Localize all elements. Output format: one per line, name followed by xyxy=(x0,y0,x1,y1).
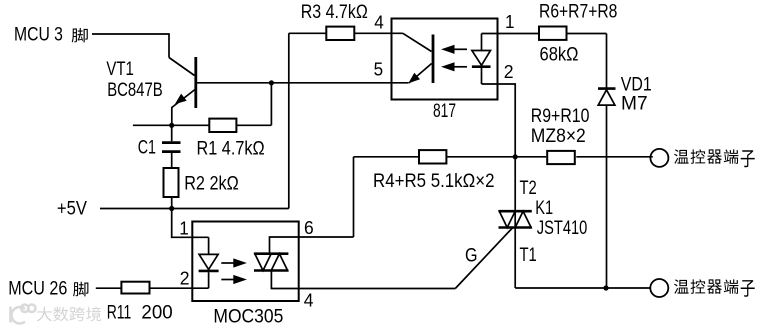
wire VT1 base to 817 pin5 xyxy=(197,82,409,84)
optocoupler 817 box xyxy=(392,19,498,100)
wire +5V up to R3 xyxy=(288,33,290,208)
svg-text:K1: K1 xyxy=(535,198,553,219)
watermark text CJK xyxy=(37,307,101,322)
svg-text:2: 2 xyxy=(180,268,190,288)
wire 817 pin1 to R6 xyxy=(482,33,539,35)
resistor R9+R10 xyxy=(547,151,575,164)
wire MOC triac bottom lead to pin4 xyxy=(271,271,455,289)
817 LED triangle xyxy=(472,51,491,66)
svg-text:R2 2kΩ: R2 2kΩ xyxy=(184,173,239,194)
triac K1 left triangle xyxy=(499,211,515,227)
terminal circle top xyxy=(650,149,668,167)
svg-text:VT1: VT1 xyxy=(106,59,133,80)
817 LED lead top xyxy=(481,34,483,51)
triac K1 top bar xyxy=(499,210,532,213)
svg-text:R3 4.7kΩ: R3 4.7kΩ xyxy=(301,2,368,23)
label terminal top CJK xyxy=(674,149,755,167)
svg-text:1: 1 xyxy=(505,12,515,32)
817 light arrow upper xyxy=(452,48,467,50)
svg-text:6: 6 xyxy=(304,218,314,238)
MOC triac top bar xyxy=(254,252,288,255)
MOC LED cathode bar xyxy=(199,270,219,273)
817 LED lead bottom xyxy=(481,68,483,84)
transistor VT1 emitter xyxy=(172,90,195,126)
wire R4R5 row left vertical to pin6 xyxy=(353,157,355,237)
MOC light arrow lower xyxy=(221,279,236,281)
node pin2 junction xyxy=(513,154,518,159)
svg-text:MCU 26: MCU 26 xyxy=(8,279,67,300)
diode VD1 triangle xyxy=(598,90,615,105)
svg-text:MCU 3: MCU 3 xyxy=(14,25,63,46)
wire R4R5 left xyxy=(354,156,420,158)
watermark logo xyxy=(11,305,36,324)
817 phototransistor collector diagonal xyxy=(403,33,432,51)
svg-text:R4+R5 5.1kΩ×2: R4+R5 5.1kΩ×2 xyxy=(373,171,495,192)
resistor R2 xyxy=(164,168,179,197)
svg-text:MZ8×2: MZ8×2 xyxy=(531,126,586,147)
node base junction xyxy=(269,80,274,85)
wire R11 input xyxy=(96,287,122,289)
svg-text:T1: T1 xyxy=(520,245,537,266)
resistor R3 xyxy=(326,27,354,40)
wire bottom row xyxy=(515,287,651,289)
817 phototransistor bar xyxy=(432,35,435,84)
wire base junction down to R1 xyxy=(270,83,272,126)
wire +5V down to MOC pin1 xyxy=(172,209,209,238)
svg-text:2: 2 xyxy=(504,62,514,82)
svg-text:T2: T2 xyxy=(520,178,537,199)
resistor R11 xyxy=(121,282,149,294)
label jiao of MCU 3 pin xyxy=(72,28,88,42)
capacitor C1 plates xyxy=(162,143,181,152)
svg-text:JST410: JST410 xyxy=(537,218,588,239)
node +5V junction xyxy=(169,206,174,211)
triac K1 right triangle xyxy=(515,211,531,227)
resistor R4+R5 xyxy=(419,150,446,163)
svg-text:MOC305: MOC305 xyxy=(213,307,283,328)
MOC light arrow upper xyxy=(221,262,236,264)
MOC triac bottom bar xyxy=(254,269,288,272)
transistor VT1 emitter arrowhead xyxy=(176,95,186,104)
MOC305 box xyxy=(192,222,298,302)
817 phototransistor emitter arrowhead xyxy=(410,74,420,83)
svg-text:G: G xyxy=(465,245,478,266)
svg-text:4: 4 xyxy=(304,290,314,310)
capacitor C1 lead bottom xyxy=(171,153,173,168)
wire R3 to 817 pin4 xyxy=(354,32,403,34)
wire R3 left xyxy=(289,32,327,34)
svg-text:BC847B: BC847B xyxy=(107,80,163,101)
wire MCU3 to VT1 collector xyxy=(92,34,169,58)
label jiao of MCU 26 pin xyxy=(73,282,88,297)
svg-text:C1: C1 xyxy=(138,138,156,159)
wire R6 to VD1 branch xyxy=(567,33,607,35)
wire 817 pin2 xyxy=(482,84,516,157)
label terminal bottom CJK xyxy=(674,279,755,296)
wire VD1 branch upper xyxy=(606,34,608,89)
wire R9R10 to terminal xyxy=(576,156,653,158)
svg-text:R1 4.7kΩ: R1 4.7kΩ xyxy=(197,138,265,159)
817 phototransistor emitter xyxy=(409,64,432,84)
triac K1 bottom bar xyxy=(499,226,532,229)
svg-text:68kΩ: 68kΩ xyxy=(540,45,579,66)
wire MOC triac top lead to pin6 xyxy=(270,237,354,254)
resistor R6+R7+R8 xyxy=(539,27,567,40)
capacitor C1 lead top xyxy=(171,125,173,141)
MOC LED lead bottom xyxy=(208,272,210,288)
resistor R1 xyxy=(209,119,236,132)
transistor VT1 bar xyxy=(194,57,197,108)
svg-text:817: 817 xyxy=(433,101,456,122)
wire R2 to +5V xyxy=(171,197,173,209)
wire VD1 branch lower xyxy=(606,105,608,288)
terminal circle bottom xyxy=(650,279,668,297)
wire K1 T2-T1 lead xyxy=(514,157,516,288)
node bottom junction xyxy=(603,285,608,290)
svg-text:200: 200 xyxy=(141,303,172,324)
diode VD1 cathode bar xyxy=(598,87,616,90)
wire +5V rail xyxy=(100,208,289,210)
svg-text:5: 5 xyxy=(374,60,384,80)
MOC triac left triangle xyxy=(255,254,271,271)
817 light arrow lower xyxy=(452,66,467,68)
svg-text:M7: M7 xyxy=(621,94,648,115)
node emitter junction xyxy=(169,123,174,128)
svg-text:1: 1 xyxy=(179,218,189,238)
svg-text:R9+R10: R9+R10 xyxy=(531,106,590,127)
wire R11 to MOC pin2 xyxy=(150,287,209,289)
transistor VT1 collector diagonal xyxy=(169,58,195,76)
wire R4R5 right xyxy=(446,156,546,158)
svg-text:4: 4 xyxy=(374,13,384,33)
svg-text:R11: R11 xyxy=(107,303,132,324)
MOC triac right triangle xyxy=(271,254,287,271)
wire R1 row left stub xyxy=(133,124,209,126)
svg-text:+5V: +5V xyxy=(57,198,87,219)
MOC LED triangle xyxy=(199,254,218,269)
wire G diagonal xyxy=(455,228,513,289)
wire R1 right xyxy=(236,124,271,126)
svg-text:R6+R7+R8: R6+R7+R8 xyxy=(539,2,617,23)
817 LED cathode bar xyxy=(472,65,491,68)
MOC LED lead top xyxy=(208,237,210,254)
